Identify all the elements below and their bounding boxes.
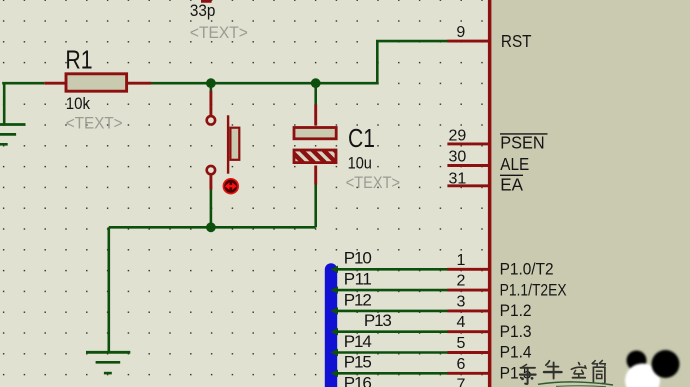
svg-text:10u: 10u: [348, 154, 372, 173]
svg-text:P10: P10: [344, 249, 372, 268]
svg-text:P1.0/T2: P1.0/T2: [500, 260, 554, 279]
svg-text:1: 1: [456, 252, 465, 269]
svg-text:R1: R1: [65, 45, 92, 75]
svg-text:ALE: ALE: [500, 154, 529, 174]
svg-text:4: 4: [456, 314, 465, 331]
svg-text:3: 3: [456, 293, 465, 310]
svg-text:P1.3: P1.3: [500, 322, 532, 341]
svg-text:P16: P16: [344, 374, 372, 387]
svg-text:10k: 10k: [66, 94, 91, 113]
svg-text:7: 7: [456, 377, 465, 387]
svg-text:P15: P15: [344, 353, 372, 372]
svg-text:5: 5: [456, 335, 465, 352]
svg-text:P12: P12: [344, 290, 372, 309]
svg-text:P14: P14: [344, 332, 372, 351]
svg-text:P13: P13: [364, 311, 392, 330]
svg-text:C1: C1: [348, 123, 375, 153]
svg-text:9: 9: [456, 24, 465, 41]
svg-text:P11: P11: [344, 270, 372, 289]
svg-text:P1.1/T2EX: P1.1/T2EX: [500, 280, 567, 299]
svg-text:PSEN: PSEN: [500, 133, 544, 153]
svg-text:<TEXT>: <TEXT>: [190, 23, 248, 42]
svg-text:<TEXT>: <TEXT>: [66, 114, 123, 133]
svg-text:<TEXT>: <TEXT>: [346, 173, 400, 192]
svg-text:P1.4: P1.4: [500, 343, 532, 362]
svg-text:29: 29: [449, 128, 467, 145]
svg-text:33p: 33p: [190, 1, 216, 20]
svg-text:30: 30: [449, 149, 467, 166]
svg-text:2: 2: [456, 273, 465, 290]
svg-text:6: 6: [456, 356, 465, 373]
svg-text:P1.2: P1.2: [500, 301, 532, 320]
svg-text:EA: EA: [500, 174, 523, 194]
svg-text:31: 31: [449, 171, 467, 188]
svg-text:RST: RST: [501, 31, 532, 51]
